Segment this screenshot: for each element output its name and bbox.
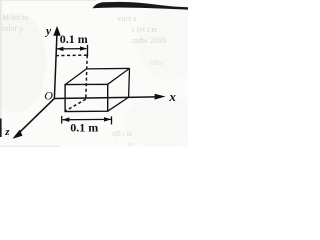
box: bottom-right depth edge FBR-BBR <box>108 97 129 111</box>
scan artifact: black swoosh top right <box>93 2 189 10</box>
svg-text:0.1 m: 0.1 m <box>60 32 88 46</box>
svg-text:euct s: euct s <box>118 14 136 23</box>
faint left border line <box>0 0 2 119</box>
dashed hidden depth edge BBL-FBL <box>65 99 85 111</box>
faint bleed-through text top-right <box>118 14 166 45</box>
paper background <box>0 0 188 147</box>
y-axis arrowhead <box>53 26 60 36</box>
box: back top edge BTL-BTR <box>86 67 129 70</box>
x-axis arrowhead <box>155 94 166 100</box>
svg-text:x: x <box>168 89 176 104</box>
subtle paper mottling <box>0 12 46 112</box>
dashed hidden vertical edge (back-left) <box>86 55 87 99</box>
y-axis <box>54 35 57 99</box>
svg-text:mlor p: mlor p <box>2 24 23 33</box>
faint bleed-through text top-left <box>2 13 28 33</box>
bottom dimension arrow 0.1 m <box>62 116 112 125</box>
faint top border line <box>0 0 96 1</box>
x-axis <box>54 97 156 99</box>
box: top-left depth edge FTL-BTL <box>65 69 86 85</box>
box: back right vertical BTR-BBR <box>128 68 131 97</box>
scan artifact: left edge dark bar <box>0 119 2 138</box>
svg-text:tidro: tidro <box>150 59 164 67</box>
svg-text:r ivt t rs: r ivt t rs <box>132 25 157 34</box>
faint bleed-through text bottom-right <box>112 130 135 148</box>
box: top-right depth edge FTR-BTR <box>108 68 130 84</box>
svg-text:O: O <box>44 88 53 102</box>
top dimension arrow 0.1 m <box>56 45 87 57</box>
svg-text:y: y <box>44 26 52 38</box>
dashed helper horizontal from y-axis <box>56 54 89 57</box>
z-axis <box>17 98 54 134</box>
svg-text:radw 2010: radw 2010 <box>132 36 166 45</box>
svg-text:o t: o t <box>128 140 135 147</box>
z-axis arrowhead <box>12 130 22 139</box>
faint bottom border line <box>0 146 60 147</box>
svg-text:0.1 m: 0.1 m <box>70 121 98 135</box>
svg-text:r(Il t m: r(Il t m <box>112 130 132 138</box>
svg-text:M hri to: M hri to <box>2 13 28 22</box>
box: front face <box>65 84 108 111</box>
svg-text:z: z <box>4 126 10 138</box>
